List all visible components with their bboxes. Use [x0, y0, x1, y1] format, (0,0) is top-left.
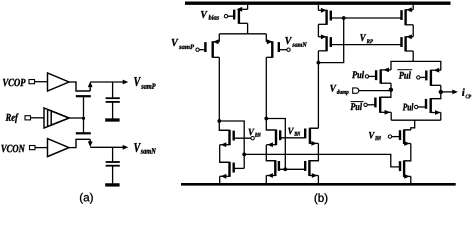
- node: dump node: [389, 88, 393, 92]
- gate wire S1: [369, 75, 376, 77]
- label VBN (middle): [288, 128, 300, 136]
- output label VsamN: [134, 143, 156, 154]
- switch S2 (PMOS, Pul-bar): [430, 70, 432, 86]
- port VBN (left): [251, 137, 254, 140]
- input label VCON: [1, 145, 25, 153]
- transistor M8 (NMOS bottom, mirror B output): [308, 160, 310, 176]
- gate wire M6-M8 bottom pair: [279, 168, 305, 170]
- transistor M9 (PMOS mirror, left top): [325, 10, 327, 25]
- node: iCP output node: [439, 90, 443, 94]
- wire buffer A3 output to switch M2: [69, 147, 77, 149]
- input port VCOP: [29, 80, 35, 84]
- wire Vdump to dump node: [359, 90, 391, 92]
- wire M4 source to ground: [219, 176, 221, 183]
- transistor M7 (NMOS cascode, mirror B output): [310, 127, 319, 129]
- node: mirror A gate distribution: [242, 153, 246, 157]
- wire M5 source to M6 drain: [266, 145, 275, 161]
- wire M12 drain to switch network: [412, 51, 414, 61]
- wire M11 source to VDD: [412, 5, 414, 10]
- port Pul-bar top-right: [417, 76, 420, 79]
- arrowhead iCP: [452, 90, 458, 95]
- switch S1 (PMOS, Pul): [380, 69, 382, 83]
- long gate bias wire to output NMOS mirror: [244, 154, 400, 167]
- wire M11 drain to M12 source: [412, 25, 414, 37]
- wire M3 source to M4 drain: [220, 145, 230, 163]
- ground of C2: [105, 183, 119, 186]
- transistor M5 (NMOS cascode, mirror B input): [266, 119, 276, 131]
- capacitor C2: [106, 161, 120, 163]
- wire buffer A2 output to switch gates node: [69, 117, 84, 119]
- wire M10 drain to node C: [317, 51, 319, 63]
- diode connection wire of mirror B: [266, 119, 285, 170]
- port VsamN: [287, 48, 290, 51]
- input label VCOP: [3, 79, 26, 87]
- switch S3 (PMOS, Pul-bar): [380, 90, 391, 97]
- ground of C1: [105, 118, 119, 121]
- wire M0 drain to tail node: [247, 23, 249, 34]
- arrowhead VsamN: [123, 145, 129, 150]
- gate wire M4 to diode wire: [234, 167, 245, 169]
- gate wire S3: [367, 104, 375, 106]
- bias input port: [224, 15, 227, 18]
- wire M2 drain down to NMOS mirror B: [265, 57, 267, 118]
- node C (PMOS mirror diode node): [317, 61, 321, 65]
- node: mirror B gate junction: [283, 167, 287, 171]
- switch transistor M1 (top sampling switch): [76, 81, 90, 91]
- transistor M6 (NMOS bottom, mirror B input): [274, 160, 276, 176]
- input port VCON: [30, 146, 36, 150]
- transistor M3 (NMOS cascode, mirror A): [219, 121, 229, 130]
- transistor M14 (NMOS bottom, output): [403, 160, 405, 177]
- transistor M11 (PMOS mirror, right top): [404, 9, 406, 25]
- wire M1 to VsamP output: [90, 81, 123, 83]
- gate wire M9-M11 pair: [331, 17, 402, 19]
- wire VsamN port to M2 gate: [279, 49, 287, 51]
- wire S2 drain to iCP node: [440, 85, 442, 92]
- wire M2 source to tail: [265, 34, 267, 42]
- label VBN (left): [249, 129, 261, 137]
- wire M9 source to VDD: [317, 5, 319, 10]
- wire M0 source to VDD: [247, 5, 249, 9]
- wire M8 source to ground: [317, 176, 319, 184]
- wire M13 source to M14 drain: [404, 144, 411, 161]
- capacitor C1: [106, 97, 120, 99]
- caption (b): [315, 193, 328, 204]
- wire M6 source to ground: [265, 176, 267, 184]
- gate wire M10-M12 cascode pair: [331, 44, 402, 46]
- node B (M2 drain / mirror B diode node): [264, 117, 268, 121]
- output label VsamP: [134, 77, 155, 89]
- buffer A1 (VCOP): [48, 73, 70, 91]
- wire VCOP port to buffer A1: [35, 81, 48, 83]
- transistor M4 (NMOS bottom, mirror A): [228, 162, 230, 177]
- diode connection wire of mirror A: [219, 121, 244, 168]
- wire bottom rail to output cascode: [411, 120, 415, 130]
- buffer A2 (Ref, triple driver): [44, 108, 69, 128]
- gate wire M2 from Ref node: [83, 119, 85, 134]
- wire S3 drain to bottom rail: [390, 112, 392, 120]
- capacitor C2 top wire: [112, 147, 114, 161]
- gate wire M13 to VBN port: [392, 136, 400, 138]
- label VsamN gate input: [285, 37, 307, 47]
- node: PMOS mirror gate junction: [342, 16, 346, 20]
- gate bar of M2: [76, 132, 91, 134]
- input label Ref: [6, 113, 19, 123]
- transistor M0 (PMOS tail current source): [238, 9, 240, 24]
- gate bar of M1: [76, 95, 91, 97]
- capacitor C1 top wire: [112, 82, 114, 98]
- gate wire S2: [420, 76, 426, 78]
- label Pul-bar (bottom left switch): [350, 103, 362, 110]
- wire VCON port to buffer A3: [35, 147, 48, 149]
- port Pul-bar bottom-left: [364, 103, 367, 106]
- gate wire M5-M7 cascode pair with VBN label: [280, 137, 305, 139]
- label VsamP gate input: [172, 39, 194, 49]
- VSS ground rail: [181, 183, 456, 186]
- wire Vbias port to M0 gate: [228, 15, 235, 17]
- wire Ref port to buffer A2: [31, 117, 45, 119]
- diode connection wire of PMOS mirror: [318, 18, 343, 63]
- switch network top rail: [391, 61, 441, 70]
- port VBN (right): [388, 135, 391, 138]
- wire M7 source to M8 drain: [309, 143, 318, 160]
- label VBN (right): [369, 132, 381, 140]
- label Pul-bar (top right switch): [399, 71, 411, 78]
- transistor M10 (PMOS cascode, left): [325, 36, 327, 51]
- input port Ref: [25, 116, 31, 120]
- port Pul top-left: [365, 75, 368, 78]
- arrowhead VsamP: [123, 80, 129, 85]
- VDD top supply rail: [185, 2, 451, 5]
- switch transistor M2 (bottom sampling switch): [76, 139, 90, 147]
- tail node rail of differential pair: [219, 33, 266, 35]
- wire M7 drain up to PMOS mirror: [317, 63, 319, 129]
- wire M14 source to ground: [410, 176, 412, 183]
- transistor M13 (NMOS cascode, output): [404, 129, 411, 131]
- wire VsamP port to M1 gate: [199, 49, 205, 51]
- port Vdump: [353, 88, 359, 93]
- label Pul (bottom right switch): [403, 103, 414, 110]
- wire M1 drain down to NMOS mirror A: [218, 57, 220, 121]
- label Pul (top left switch): [352, 71, 364, 78]
- transistor M1 (left PMOS of diff pair): [211, 41, 213, 58]
- buffer A3 (VCON): [48, 139, 70, 157]
- switch S4 (PMOS, Pul): [431, 92, 441, 99]
- caption (a): [80, 193, 93, 204]
- capacitor C1 bottom wire: [112, 103, 114, 119]
- gate wire M3 to VBN port: [234, 137, 251, 139]
- wire S4 drain to bottom rail: [440, 113, 442, 121]
- gate wire S4: [418, 106, 426, 108]
- transistor M12 (PMOS cascode, right): [404, 36, 406, 51]
- label Vdump: [330, 85, 348, 95]
- label VRP: [360, 34, 373, 43]
- wire M9 drain to M10 source: [317, 24, 319, 37]
- port VsamP: [196, 48, 199, 51]
- wire M2 to VsamN output: [90, 146, 123, 148]
- node A (M1 drain / mirror A diode node): [217, 119, 221, 123]
- wire to iCP output: [441, 91, 454, 93]
- capacitor C2 bottom wire: [112, 166, 114, 183]
- port Pul bottom-right: [415, 105, 418, 108]
- wire M1 source to tail: [218, 34, 220, 42]
- transistor M2 (right PMOS of diff pair): [271, 41, 273, 58]
- output label iCP: [462, 88, 471, 98]
- switch network bottom rail: [391, 119, 441, 121]
- wire S1 drain to dump node: [390, 83, 392, 89]
- bias label Vbias: [201, 11, 219, 20]
- gate wire M1 to Ref node: [83, 96, 85, 118]
- wire buffer A1 output to switch M1: [69, 81, 77, 83]
- node: Ref buffer to switch gates: [82, 117, 85, 120]
